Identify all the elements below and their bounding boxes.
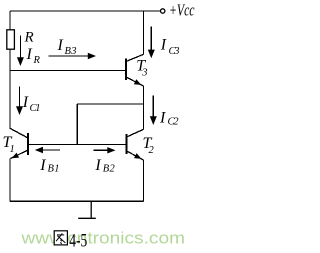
wire bottom rail xyxy=(10,200,144,202)
label T1 xyxy=(3,134,15,155)
wire node A horizontal to T3 base xyxy=(10,70,126,72)
svg-text:1: 1 xyxy=(10,144,15,155)
transistor T2 xyxy=(127,129,144,161)
label T3 xyxy=(136,57,147,78)
svg-text:+Vcc: +Vcc xyxy=(169,0,195,19)
resistor R xyxy=(7,30,15,49)
svg-text:B2: B2 xyxy=(103,163,116,174)
label I_C2 xyxy=(159,110,179,128)
svg-text:B3: B3 xyxy=(65,46,77,57)
transistor T1 xyxy=(10,128,28,160)
svg-text:I: I xyxy=(57,37,64,54)
caption glyph 图 xyxy=(54,231,67,245)
svg-text:R: R xyxy=(33,55,41,66)
svg-text:B1: B1 xyxy=(48,163,60,174)
svg-text:I: I xyxy=(39,157,46,174)
current arrow I_B2 xyxy=(93,147,115,153)
transistor T3 xyxy=(126,54,144,87)
label I_B1 xyxy=(39,157,59,174)
current arrow I_R xyxy=(17,36,24,67)
svg-text:I: I xyxy=(26,46,33,63)
wire top rail Vcc xyxy=(10,10,160,12)
wire left rail upper xyxy=(9,11,11,30)
current arrow I_C2 xyxy=(150,96,157,126)
label T2 xyxy=(143,135,155,156)
current arrow I_C3 xyxy=(148,27,155,59)
wire base bus T1 to T2 xyxy=(28,144,127,146)
label I_R xyxy=(26,46,41,66)
wire right rail lower xyxy=(143,160,145,201)
wire T3 emitter to T2 collector xyxy=(143,86,145,129)
label I_C1 xyxy=(22,94,41,114)
svg-text:C2: C2 xyxy=(168,117,180,128)
svg-text:I: I xyxy=(22,94,29,111)
svg-text:4-5: 4-5 xyxy=(69,231,87,252)
current arrow I_B3 xyxy=(48,53,96,59)
svg-text:C3: C3 xyxy=(169,46,180,57)
svg-text:R: R xyxy=(24,30,34,46)
current arrow I_B1 xyxy=(35,147,60,153)
wire left rail middle xyxy=(9,49,11,128)
svg-text:I: I xyxy=(94,157,101,174)
label I_B2 xyxy=(94,157,115,174)
wire feedback horizontal xyxy=(77,103,143,105)
wire left rail lower xyxy=(9,158,11,201)
svg-text:3: 3 xyxy=(141,68,147,79)
wire right rail upper xyxy=(143,11,145,54)
svg-text:2: 2 xyxy=(149,145,155,156)
wire feedback vertical xyxy=(76,104,78,145)
label I_C3 xyxy=(160,36,180,57)
svg-text:C1: C1 xyxy=(30,103,41,114)
svg-text:I: I xyxy=(160,36,167,53)
current arrow I_C1 xyxy=(16,87,23,116)
label I_B3 xyxy=(57,37,77,57)
svg-text:I: I xyxy=(159,110,166,127)
ground xyxy=(78,201,96,218)
svg-text:www.cntronics.com: www.cntronics.com xyxy=(20,230,185,248)
terminal +Vcc xyxy=(161,9,165,13)
